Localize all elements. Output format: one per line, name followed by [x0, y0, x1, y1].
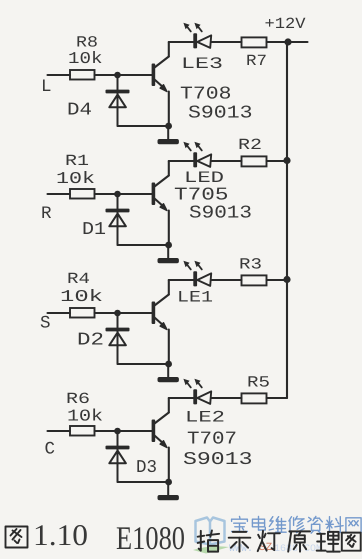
wire diode anode to emitter [118, 125, 169, 127]
wire input [48, 74, 71, 76]
junction emitter node [165, 479, 172, 486]
wire diode anode to emitter [118, 481, 169, 483]
svg-text:10k: 10k [67, 407, 103, 426]
junction base node [114, 191, 121, 198]
LED LE2 [193, 389, 197, 404]
ground [167, 126, 169, 140]
wire emitter [168, 330, 170, 365]
svg-text:10k: 10k [68, 49, 103, 68]
transistor Q2 [152, 183, 156, 206]
transistor Q4 [152, 420, 156, 443]
junction emitter node [165, 242, 172, 249]
transistor Q1 [152, 64, 156, 87]
svg-text:R: R [41, 204, 52, 224]
svg-text:T705: T705 [174, 186, 229, 206]
wire LED to resistor [211, 397, 241, 399]
diode D3 [117, 431, 119, 482]
wire diode anode to emitter [118, 363, 169, 365]
wire emitter [168, 448, 170, 483]
wire collector [168, 280, 170, 295]
wire LED to resistor [211, 160, 241, 162]
junction base node [114, 310, 121, 317]
svg-text:LE1: LE1 [177, 289, 213, 307]
wire emitter [168, 211, 170, 246]
svg-text:R2: R2 [238, 136, 262, 154]
junction rail R2 [283, 157, 290, 164]
svg-text:S9013: S9013 [183, 450, 253, 470]
svg-text:LE3: LE3 [181, 55, 223, 73]
wire diode anode to emitter [118, 244, 169, 246]
wire +12V rail [286, 42, 288, 398]
svg-text:R5: R5 [247, 374, 270, 392]
svg-text:1.10: 1.10 [33, 519, 88, 552]
svg-text:10k: 10k [60, 287, 103, 306]
svg-text:D3: D3 [136, 458, 157, 478]
wire resistor to base [95, 193, 153, 195]
resistor R2 [242, 156, 267, 166]
svg-text:D1: D1 [82, 220, 106, 240]
wire LED to resistor [211, 279, 241, 281]
watermark logo book icon [196, 518, 225, 545]
wire LED to resistor [211, 41, 241, 43]
LED LE1 [193, 271, 197, 286]
svg-text:T708: T708 [180, 85, 232, 105]
junction emitter node [165, 361, 172, 368]
resistor R7 [242, 37, 267, 47]
resistor R5 [242, 393, 267, 403]
ground [167, 482, 169, 496]
wire input [48, 193, 71, 195]
svg-text:D4: D4 [67, 101, 92, 121]
svg-text:R1: R1 [65, 152, 89, 170]
wire resistor to rail [267, 279, 288, 281]
svg-text:+12V: +12V [265, 15, 307, 33]
svg-text:L: L [41, 77, 52, 97]
wire input [48, 430, 71, 432]
svg-text:LED: LED [184, 169, 224, 187]
transistor Q3 [152, 302, 156, 325]
ground [167, 364, 169, 378]
junction base node [114, 72, 121, 79]
ground [167, 245, 169, 259]
svg-text:S9013: S9013 [189, 204, 252, 224]
svg-text:10k: 10k [56, 169, 95, 188]
svg-text:R7: R7 [246, 52, 267, 70]
resistor R3 [242, 275, 267, 285]
wire collector [168, 161, 170, 176]
svg-text:R4: R4 [67, 270, 90, 288]
wire emitter [168, 92, 170, 127]
svg-text:D2: D2 [77, 331, 104, 351]
svg-text:S: S [40, 314, 51, 334]
svg-text:C: C [45, 440, 56, 460]
wire collector [168, 42, 170, 57]
caption title [198, 531, 219, 552]
wire resistor to base [95, 312, 153, 314]
wire resistor to rail [267, 160, 288, 162]
svg-text:T707: T707 [187, 430, 237, 450]
svg-text:R6: R6 [66, 390, 90, 408]
LED LE3 [193, 33, 197, 48]
wire resistor to base [95, 430, 153, 432]
junction rail R3 [283, 276, 290, 283]
wire collector [168, 398, 170, 413]
junction base node [114, 428, 121, 435]
junction emitter node [165, 123, 172, 130]
wire input [48, 312, 71, 314]
svg-text:LE2: LE2 [185, 409, 225, 427]
diode D4 [117, 75, 119, 126]
wire +12V stub [288, 41, 308, 43]
diode D2 [117, 313, 119, 364]
wire resistor to rail [267, 397, 288, 399]
LED LED [193, 152, 197, 167]
svg-text:R3: R3 [239, 256, 262, 274]
wire resistor to base [95, 74, 153, 76]
svg-text:S9013: S9013 [188, 104, 253, 124]
svg-text:1688.COM: 1688.COM [274, 544, 322, 555]
wire resistor to rail [267, 41, 288, 43]
caption figure number [6, 527, 28, 548]
junction rail top [284, 38, 291, 45]
watermark text 宝电维修资料网 [232, 516, 248, 531]
diode D1 [117, 194, 119, 245]
svg-text:E1080: E1080 [116, 521, 185, 557]
